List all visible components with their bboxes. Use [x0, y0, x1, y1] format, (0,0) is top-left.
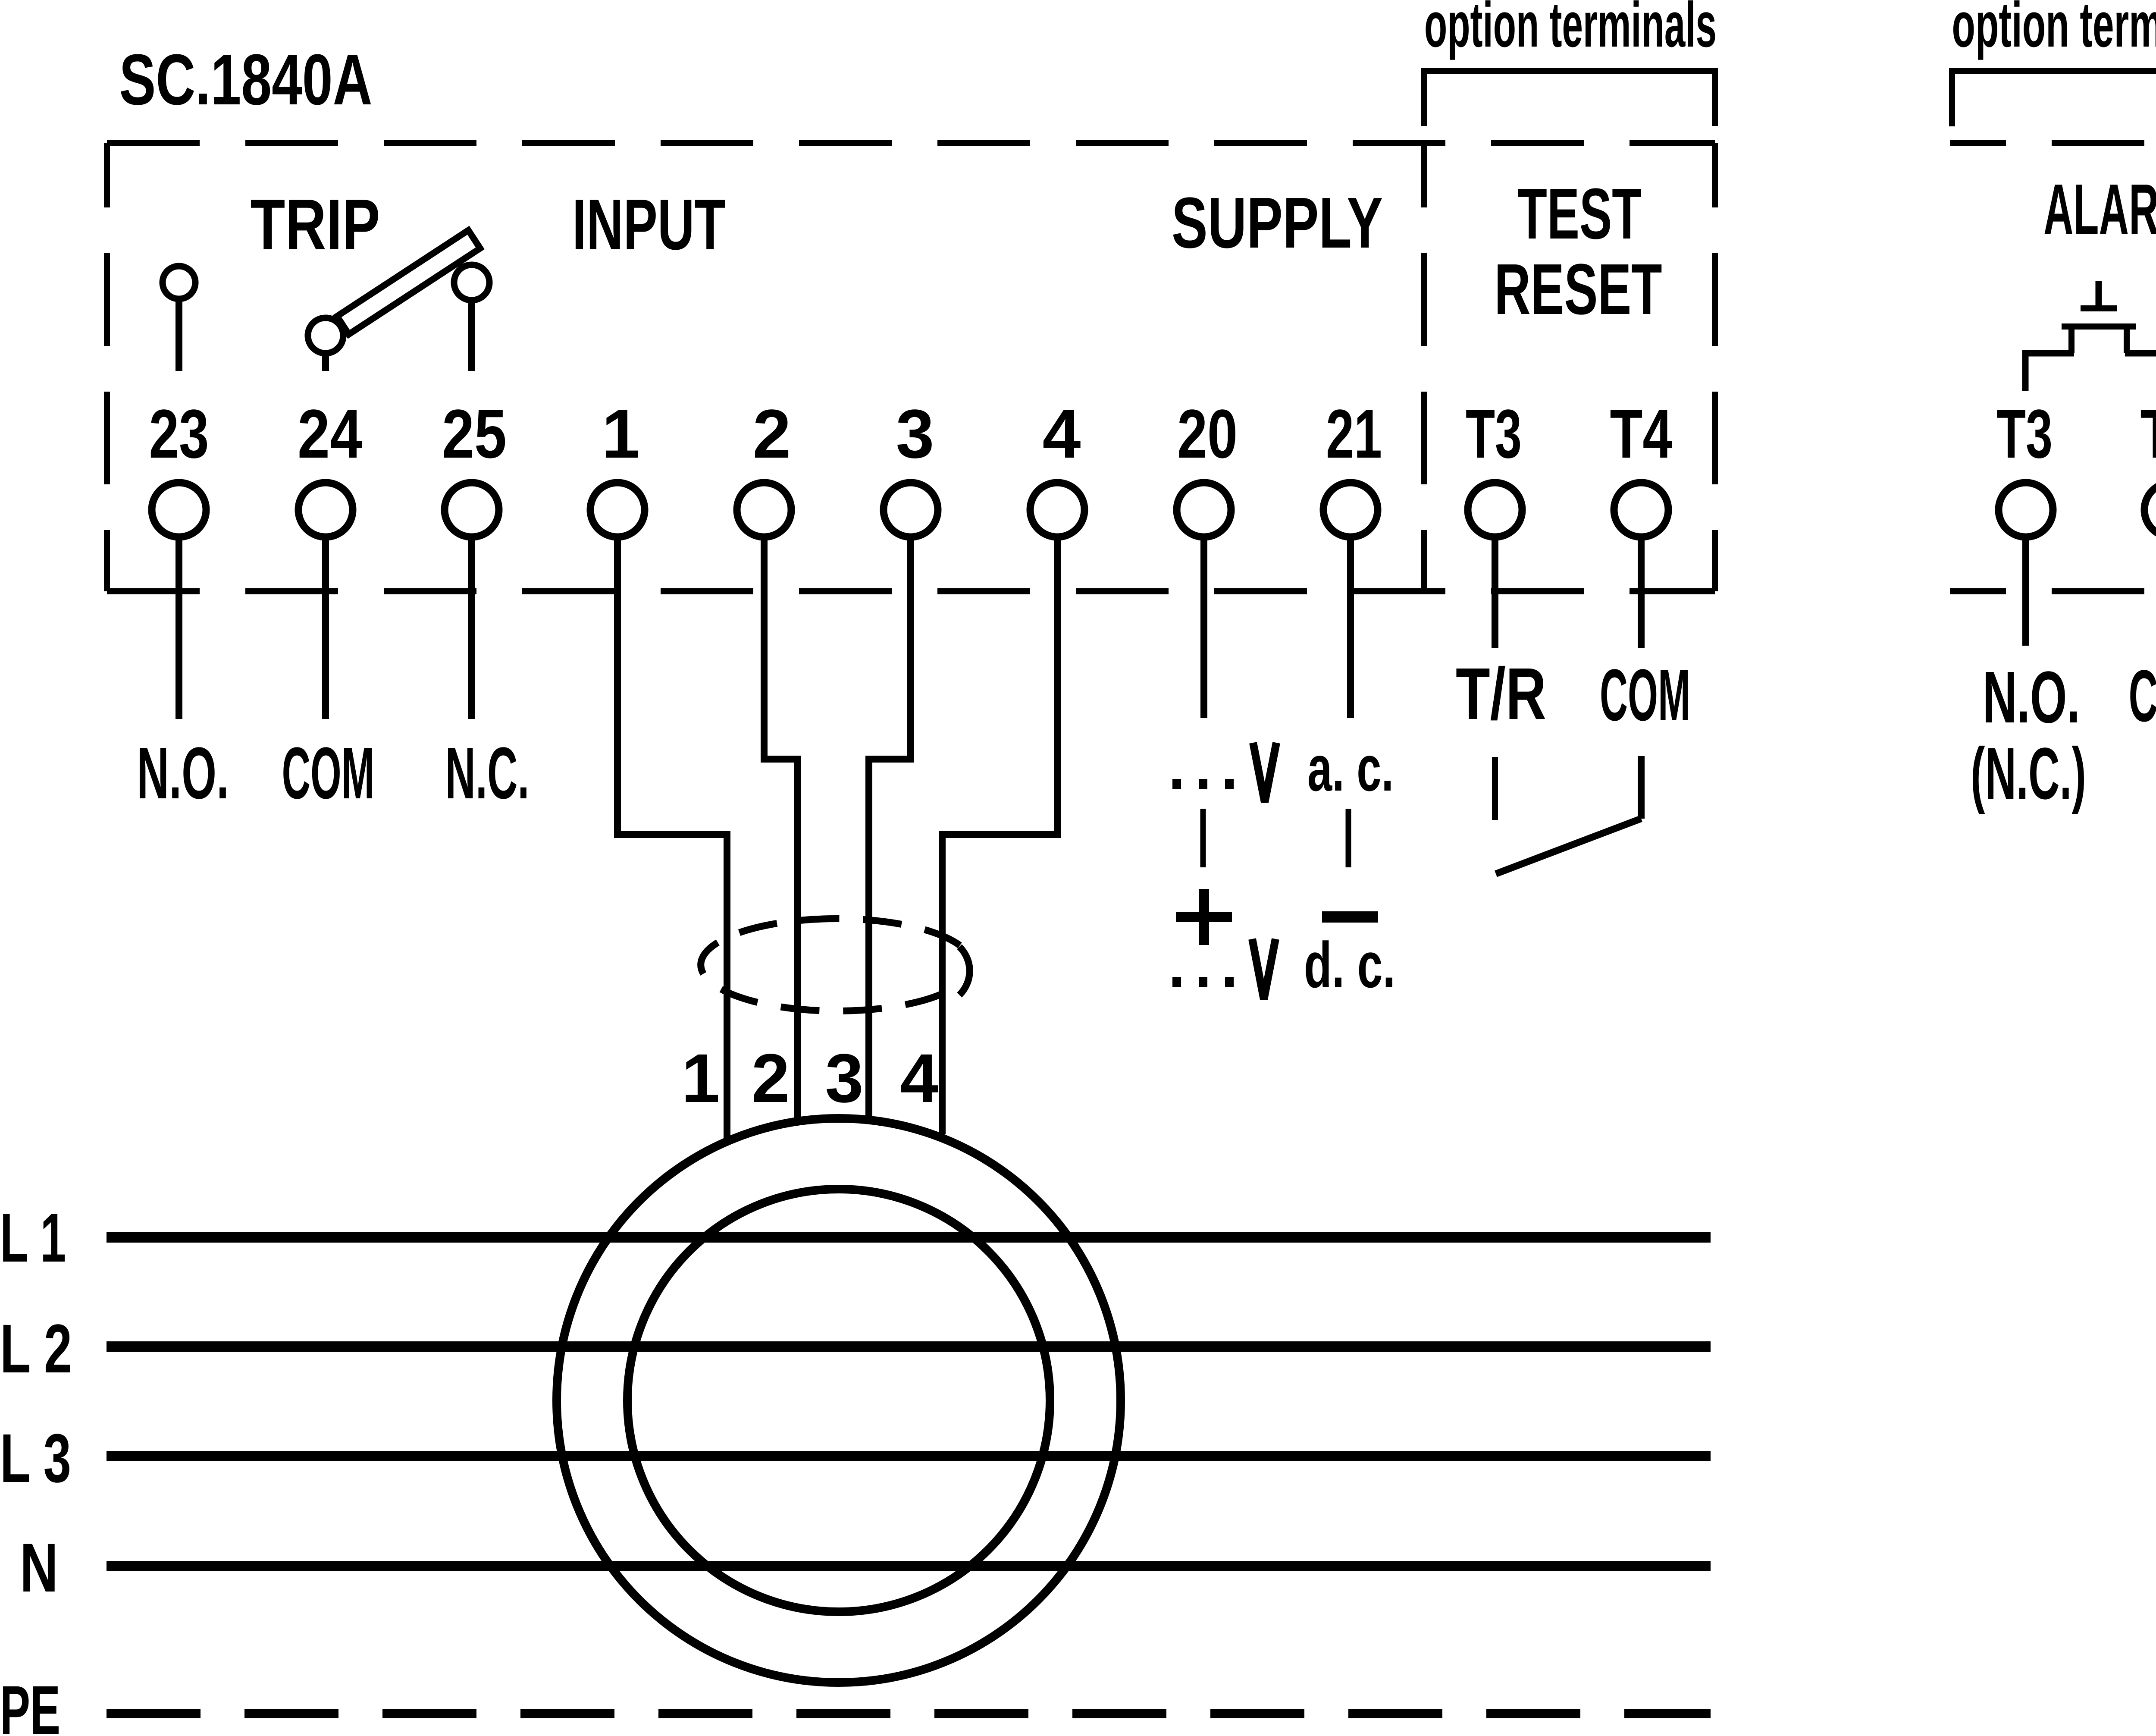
- supply continuation stub 21: [1346, 809, 1351, 867]
- svg-text:ALARM: ALARM: [2043, 170, 2156, 250]
- phase line L2: [107, 1341, 1711, 1352]
- svg-text:2: 2: [752, 1039, 790, 1117]
- svg-text:INPUT: INPUT: [572, 185, 726, 265]
- svg-text:1: 1: [602, 395, 640, 472]
- svg-text:N: N: [20, 1529, 58, 1606]
- terminal circle 2: [737, 483, 791, 537]
- svg-text:4: 4: [1043, 395, 1081, 472]
- wire from terminal 1 to CT: [617, 537, 727, 1139]
- svg-text:24: 24: [298, 395, 362, 472]
- svg-text:COM: COM: [1600, 654, 1690, 736]
- wire from terminal 4 to CT: [942, 537, 1057, 1134]
- TRIP relay blade: [337, 230, 480, 334]
- main relay dashed box left edge: [104, 143, 110, 591]
- TRIP contact circle (terminal 25, N.C.): [454, 265, 489, 300]
- svg-text:L 1: L 1: [0, 1199, 66, 1276]
- dashed divider between SUPPLY and TEST RESET section: [1421, 143, 1427, 591]
- test pushbutton diagonal contact: [1496, 819, 1641, 874]
- terminal circle 4: [1030, 483, 1084, 537]
- svg-text:option terminals: option terminals: [1424, 0, 1717, 60]
- d.c. supply V symbol: [1252, 939, 1275, 999]
- svg-text:SUPPLY: SUPPLY: [1172, 183, 1383, 263]
- terminal circle T4: [1614, 483, 1668, 537]
- option terminals bracket (TEST RESET): [1424, 71, 1715, 126]
- pushbutton contact posts: [2071, 326, 2127, 353]
- svg-text:N.C.: N.C.: [445, 732, 530, 814]
- a.c. supply V symbol: [1253, 743, 1276, 802]
- ALARM option bracket: [1952, 71, 2156, 126]
- svg-text:COM: COM: [2129, 655, 2156, 737]
- svg-text:4: 4: [900, 1039, 939, 1117]
- terminal circle T3 (alarm): [1999, 483, 2053, 537]
- pushbutton actuator stem: [2096, 281, 2102, 307]
- CT shield overlap arc: [959, 947, 970, 995]
- svg-text:TRIP: TRIP: [251, 185, 380, 265]
- ALARM option dashed box top: [1950, 140, 2156, 146]
- terminal circle 3: [884, 483, 938, 537]
- wire below terminal 21: [1347, 537, 1354, 718]
- TRIP pivot circle (terminal 24, COM): [308, 318, 343, 353]
- main relay dashed box top edge: [107, 140, 1715, 146]
- wire below alarm T3: [2022, 537, 2029, 646]
- wire below terminal 20: [1200, 537, 1207, 718]
- svg-text:T4: T4: [2140, 395, 2156, 472]
- wire from terminal 2 to CT: [764, 537, 798, 1118]
- svg-text:23: 23: [149, 395, 209, 472]
- wire below terminal 25: [468, 537, 475, 719]
- d.c. plus symbol: [1176, 889, 1232, 945]
- wire below terminal T4: [1638, 537, 1645, 648]
- wire below pivot 24: [322, 355, 329, 371]
- svg-text:20: 20: [1177, 395, 1238, 472]
- svg-text:21: 21: [1326, 395, 1382, 472]
- wire below contact 25: [468, 302, 475, 371]
- CT cable shield dashed ellipse: [701, 919, 960, 1011]
- terminal circle 24: [298, 483, 353, 537]
- terminal circle 23: [152, 483, 206, 537]
- svg-text:TEST: TEST: [1517, 174, 1642, 254]
- T/R contact stub: [1492, 757, 1498, 820]
- svg-text:T4: T4: [1610, 395, 1673, 472]
- supply continuation stub 20: [1200, 809, 1206, 867]
- svg-text:RESET: RESET: [1495, 249, 1662, 330]
- main relay dashed box bottom edge: [107, 588, 1715, 594]
- pushbutton left wing and wire to T3: [2025, 353, 2074, 391]
- svg-text:3: 3: [825, 1039, 864, 1117]
- svg-text:N.O.: N.O.: [1983, 656, 2080, 738]
- COM wire stub: [1638, 756, 1645, 819]
- wire below terminal 23: [175, 537, 182, 719]
- svg-text:PE: PE: [0, 1671, 60, 1736]
- svg-text:L 2: L 2: [0, 1310, 72, 1387]
- current transformer outer ring: [557, 1118, 1121, 1683]
- wire from terminal 3 to CT: [869, 537, 911, 1117]
- svg-text:d. c.: d. c.: [1304, 929, 1395, 1001]
- svg-text:N.O.: N.O.: [137, 732, 229, 814]
- svg-text:a. c.: a. c.: [1307, 732, 1394, 804]
- svg-text:T3: T3: [1466, 395, 1522, 472]
- a.c. supply ellipsis dots: [1172, 779, 1181, 789]
- wire below terminal 24: [322, 537, 329, 719]
- svg-text:T3: T3: [1996, 395, 2053, 472]
- svg-text:25: 25: [442, 395, 507, 472]
- terminal circle 25: [445, 483, 499, 537]
- svg-text:L 3: L 3: [0, 1419, 71, 1497]
- wire below contact 23: [175, 301, 182, 371]
- neutral line N: [107, 1561, 1711, 1571]
- wire below terminal T3: [1492, 537, 1498, 648]
- d.c. supply ellipsis dots: [1172, 977, 1181, 987]
- terminal circle 21: [1323, 483, 1378, 537]
- svg-text:1: 1: [682, 1039, 720, 1117]
- pushbutton right wing and wire to T4: [2125, 353, 2156, 391]
- TRIP contact circle (terminal 23, N.O.): [163, 266, 195, 299]
- terminal circle T4 (alarm): [2144, 483, 2156, 537]
- svg-text:(N.C.): (N.C.): [1971, 733, 2086, 815]
- pushbutton bridge contact: [2062, 323, 2136, 330]
- d.c. minus symbol: [1322, 911, 1378, 923]
- svg-text:3: 3: [896, 395, 934, 472]
- terminal circle 20: [1177, 483, 1231, 537]
- svg-text:T/R: T/R: [1456, 653, 1546, 735]
- pushbutton actuator plate: [2081, 305, 2117, 311]
- svg-text:option terminals: option terminals: [1952, 0, 2156, 60]
- terminal circle 1: [590, 483, 645, 537]
- svg-text:COM: COM: [282, 732, 375, 814]
- terminal circle T3: [1468, 483, 1522, 537]
- current transformer inner ring: [627, 1189, 1050, 1612]
- ALARM option dashed box bottom: [1950, 588, 2156, 594]
- phase line L3: [107, 1451, 1711, 1461]
- phase line L1: [107, 1232, 1711, 1243]
- TEST RESET box dashed right edge: [1712, 143, 1718, 591]
- protective earth dashed line PE: [107, 1709, 1711, 1718]
- svg-text:2: 2: [753, 395, 791, 472]
- svg-text:SC.1840A: SC.1840A: [119, 40, 373, 120]
